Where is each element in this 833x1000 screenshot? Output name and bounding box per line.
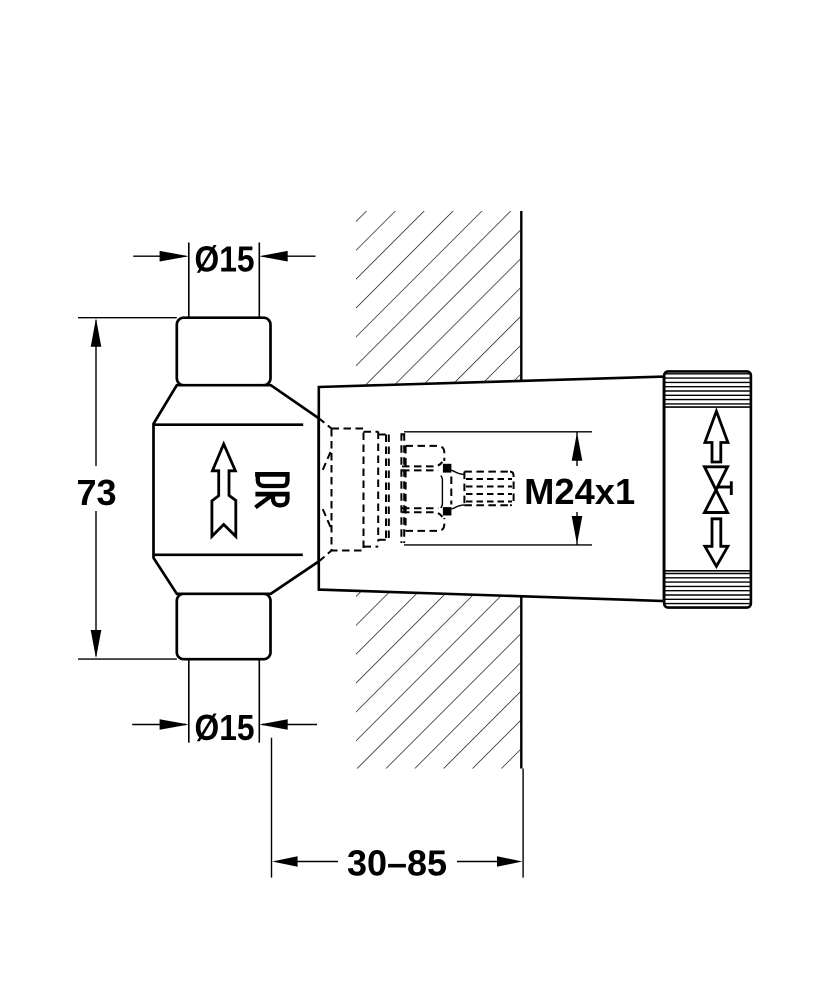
svg-text:Ø15: Ø15	[195, 707, 255, 748]
svg-text:M24x1: M24x1	[524, 471, 635, 512]
svg-text:30–85: 30–85	[347, 843, 447, 884]
svg-text:Ø15: Ø15	[195, 239, 255, 280]
svg-text:73: 73	[76, 472, 116, 513]
